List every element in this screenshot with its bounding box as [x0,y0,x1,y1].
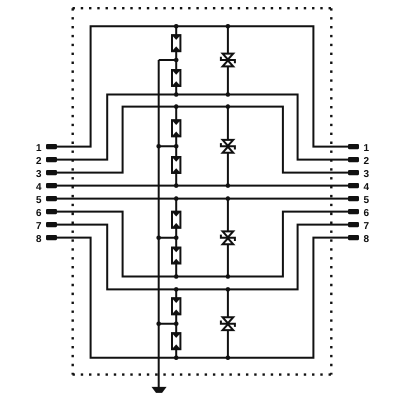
pin label 4 (left) [36,183,41,190]
terminal 3 (left) [46,170,57,175]
junction GDT midpoint pair 5-6 [174,236,179,241]
pin label 5 (right) [364,196,369,203]
suppressor diode (bidirectional TVS) pair 5-6 [221,231,235,244]
pin label 1 (left) [37,144,42,151]
pin label 3 (right) [364,170,369,177]
gas discharge tube B2 (ground to line 4) [171,156,181,174]
wire TVS column pair 5-6 [227,199,229,277]
gas discharge tube C2 (ground to line 6) [171,247,181,265]
terminal 6 (right) [348,209,359,214]
wire line 7 (left pin 7 - rail 7 - right pin 7) [57,225,348,290]
wire ground branch pair 1-2 [159,59,177,61]
junction rail7 / TVS column [226,287,231,292]
junction GDT midpoint pair 3-4 [174,144,179,149]
ground (earth symbol) [152,387,167,393]
terminal 2 (right) [348,157,359,162]
gas discharge tube C1 (line 5 to ground) [171,211,181,229]
junction rail2 / TVS column [226,92,231,97]
wire line 4 (straight through) [57,185,348,187]
junction rail8 / GDT column [174,355,179,360]
junction rail1 / GDT column [174,24,179,29]
pin label 2 (right) [364,157,369,164]
wire line 6 (left pin 6 - rail 6 - right pin 6) [57,212,348,277]
pin label 6 (left) [36,209,41,216]
pin label 2 (left) [36,157,41,164]
terminal 5 (right) [348,196,359,201]
pin label 1 (right) [364,144,369,151]
pin label 8 (left) [36,235,41,242]
terminal 2 (left) [46,157,57,162]
wire ground bus (vertical to earth) [158,60,160,388]
terminal 1 (right) [348,144,359,149]
terminal 1 (left) [46,144,57,149]
suppressor diode (bidirectional TVS) pair 3-4 [221,140,235,153]
pin label 6 (right) [364,209,369,216]
wire TVS column pair 3-4 [227,107,229,186]
wire TVS column pair 1-2 [227,26,229,94]
wire TVS column pair 7-8 [227,289,229,357]
junction rail6 / TVS column [226,274,231,279]
junction rail2 / GDT column [174,92,179,97]
terminal 8 (left) [46,235,57,240]
wire GDT column pair 5-6 (rail5 to rail6) [175,199,177,277]
terminal 4 (left) [46,183,57,188]
terminal 8 (right) [348,235,359,240]
pin label 4 (right) [364,183,369,190]
gas discharge tube D1 (line 7 to ground) [171,297,181,315]
pin label 3 (left) [36,170,41,177]
junction rail1 / TVS column [226,24,231,29]
junction ground bus / branch 3-4 [156,144,161,149]
junction ground bus / branch 5-6 [156,236,161,241]
terminal 3 (right) [348,170,359,175]
gas discharge tube D2 (ground to line 8) [171,332,181,350]
junction rail6 / GDT column [174,274,179,279]
terminal 7 (left) [46,222,57,227]
junction rail7 / GDT column [174,287,179,292]
gas discharge tube B1 (line 3 to ground) [171,119,181,137]
junction rail3 / TVS column [226,104,231,109]
pin label 7 (right) [364,222,369,229]
terminal 7 (right) [348,222,359,227]
wire line 1 (left pin 1 - top rail - right pin 1) [57,26,348,146]
terminal 6 (left) [46,209,57,214]
junction rail5 / GDT column [174,196,179,201]
junction rail5 / TVS column [226,196,231,201]
pin label 8 (right) [364,235,369,242]
wire line 3 (left pin 3 - rail 3 - right pin 3) [57,107,348,173]
wire line 8 (left pin 8 - bottom rail - right pin 8) [57,238,348,358]
wire GDT column pair 1-2 (rail1 to rail2) [175,26,177,94]
wire line 2 (left pin 2 - rail 2 - right pin 2) [57,95,348,160]
junction rail4 / GDT column [174,183,179,188]
junction rail3 / GDT column [174,104,179,109]
pin label 5 (left) [36,196,41,203]
pin label 7 (left) [36,222,41,229]
junction rail8 / TVS column [226,355,231,360]
gas discharge tube A2 (ground to line 2) [171,69,181,87]
suppressor diode (bidirectional TVS) pair 7-8 [221,317,235,330]
device enclosure boundary (dotted) [73,8,332,374]
terminal 4 (right) [348,183,359,188]
gas discharge tube A1 (line 1 to ground) [171,34,181,52]
wire line 5 (straight through) [57,198,348,200]
wire ground branch pair 7-8 [159,323,177,325]
terminal 5 (left) [46,196,57,201]
suppressor diode (bidirectional TVS) pair 1-2 [221,54,235,67]
wire ground branch pair 3-4 [159,145,177,147]
wire GDT column pair 7-8 (rail7 to rail8) [175,289,177,357]
junction GDT midpoint pair 7-8 [174,321,179,326]
junction GDT midpoint pair 1-2 [174,58,179,63]
wire GDT column pair 3-4 (rail3 to rail4) [175,107,177,186]
junction rail4 / TVS column [226,183,231,188]
wire ground branch pair 5-6 [159,237,177,239]
junction ground bus / branch 7-8 [156,321,161,326]
